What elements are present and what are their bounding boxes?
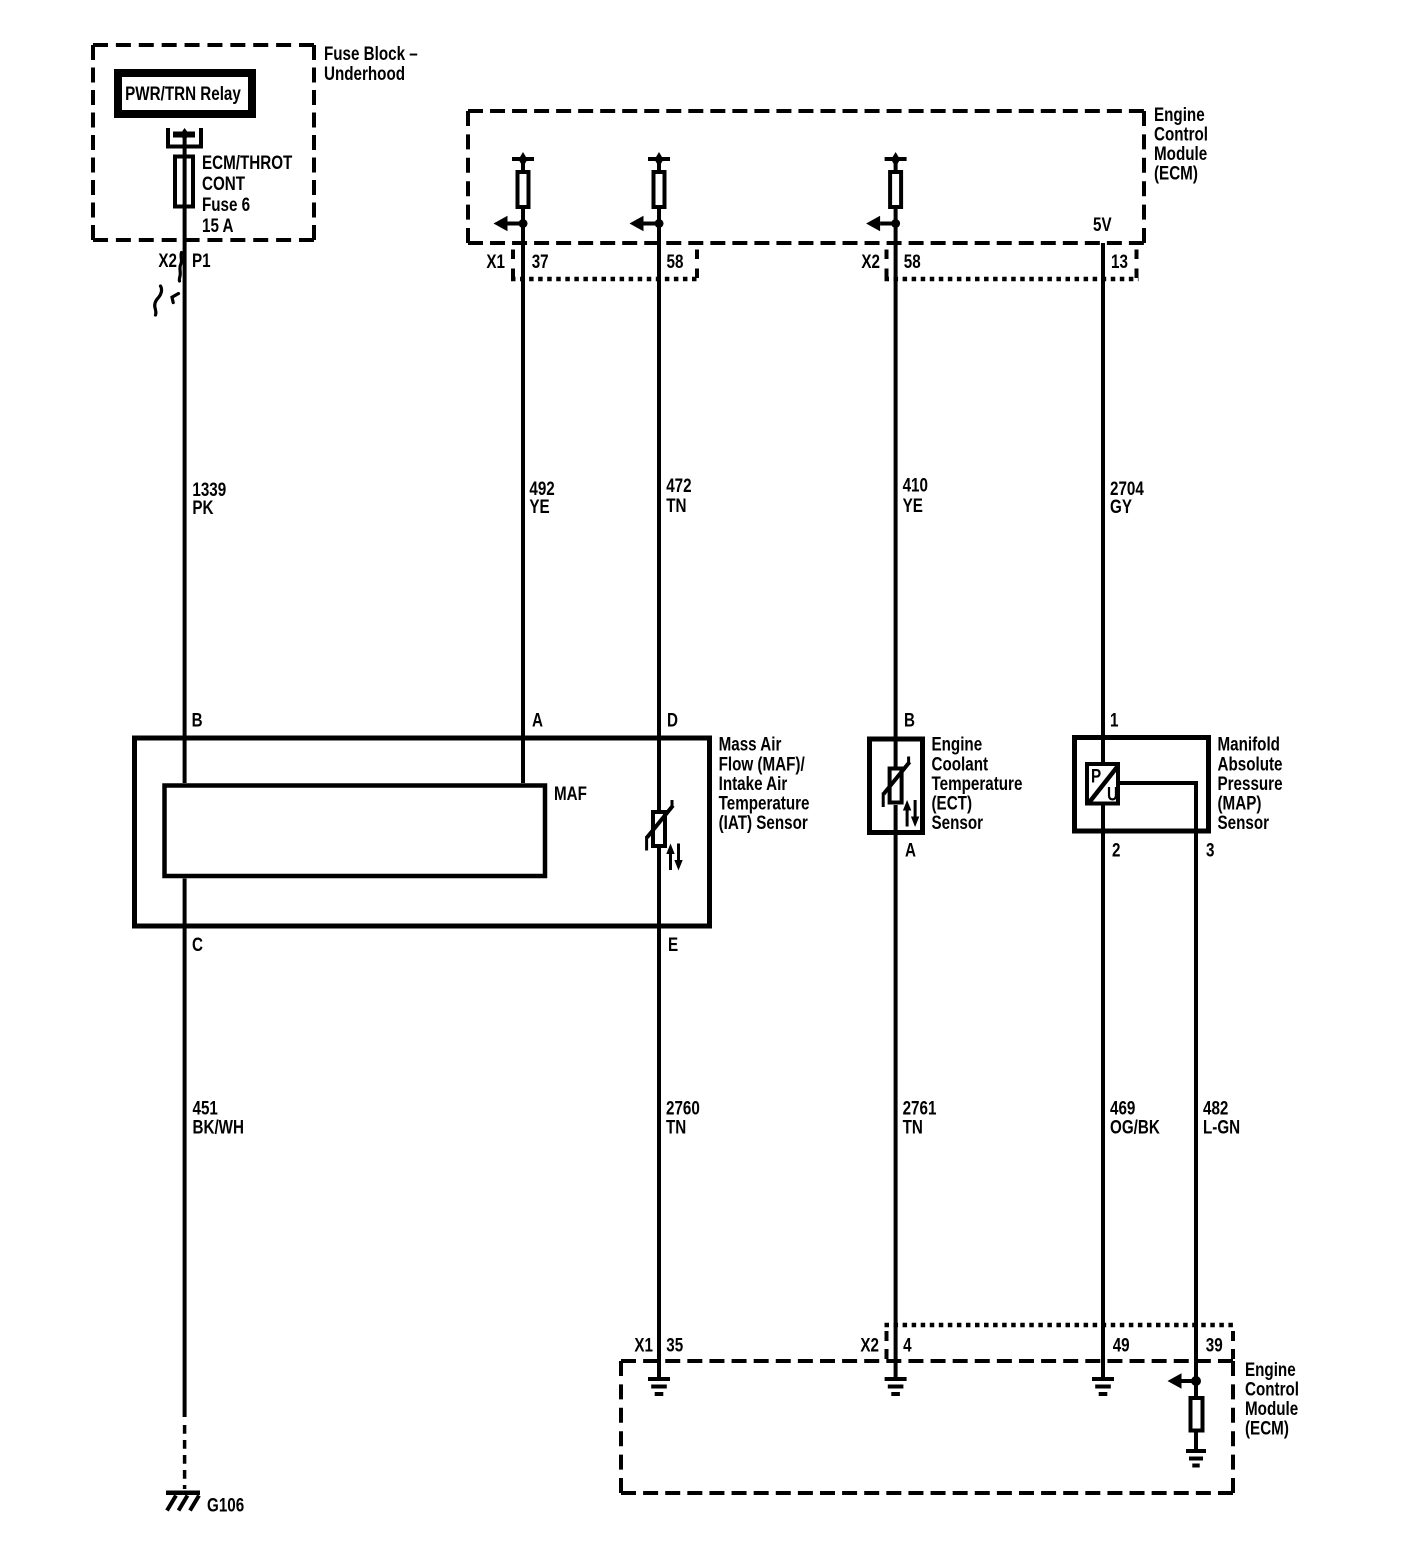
connector X1 (37,58) dotted box (511, 250, 515, 279)
svg-text:X1: X1 (486, 250, 505, 272)
junction dot pin 39 (1191, 1376, 1201, 1386)
MAF inner block (165, 786, 546, 877)
ground at ECM pin 49 (1092, 1379, 1114, 1394)
svg-text:U: U (1107, 783, 1118, 805)
fuse block underhood dashed box (93, 45, 314, 240)
ECM top dashed box (468, 111, 1144, 243)
svg-text:C: C (192, 933, 203, 955)
wire 2704 GY / 469 OG/BK (1101, 243, 1105, 762)
svg-text:TN: TN (666, 494, 686, 516)
relay contact terminal bracket (166, 128, 170, 147)
svg-text:(IAT) Sensor: (IAT) Sensor (719, 811, 808, 833)
svg-text:X2: X2 (861, 250, 880, 272)
arrow at pin 39 (1182, 1379, 1197, 1383)
svg-text:X2: X2 (860, 1334, 879, 1356)
svg-text:472: 472 (666, 474, 692, 496)
wire 482 L-GN from MAP pin 3 (1118, 781, 1198, 785)
svg-text:CONT: CONT (202, 172, 245, 194)
ECT sensor box (870, 739, 923, 833)
svg-text:Fuse 6: Fuse 6 (202, 193, 250, 215)
fuse F6 ECM/THROT CONT 15A (175, 157, 193, 207)
ground at ECM pin 4 (885, 1379, 907, 1394)
svg-text:L-GN: L-GN (1203, 1116, 1240, 1138)
ECM bottom dashed box (621, 1361, 1233, 1493)
bottom connector dotted box (X2 4, 49, 39) (885, 1323, 1234, 1328)
wire dashed segment above G106 (183, 1425, 187, 1489)
svg-text:PWR/TRN Relay: PWR/TRN Relay (125, 82, 241, 104)
svg-text:B: B (192, 709, 203, 731)
svg-text:Sensor: Sensor (932, 811, 984, 833)
svg-text:ECM/THROT: ECM/THROT (202, 151, 293, 173)
wire 451 BK/WH from MAF pin C down (183, 879, 187, 1418)
wire 492 YE (521, 157, 525, 172)
svg-text:39: 39 (1206, 1334, 1223, 1356)
relay PWR/TRN box (118, 73, 252, 114)
svg-text:37: 37 (532, 250, 549, 272)
MAP sensor box (1075, 738, 1209, 832)
ECT thermistor (883, 757, 919, 828)
svg-text:5V: 5V (1093, 213, 1112, 235)
ECM pull-down resistor at pin 39 (1191, 1398, 1203, 1431)
svg-text:Sensor: Sensor (1218, 811, 1270, 833)
svg-text:TN: TN (666, 1116, 686, 1138)
svg-text:4: 4 (903, 1334, 912, 1356)
svg-text:G106: G106 (207, 1494, 244, 1516)
svg-text:MAF: MAF (554, 782, 587, 804)
svg-text:2: 2 (1112, 839, 1121, 861)
svg-text:P: P (1091, 765, 1101, 787)
svg-text:X1: X1 (634, 1334, 653, 1356)
svg-text:58: 58 (667, 250, 684, 272)
svg-text:58: 58 (904, 250, 921, 272)
svg-text:D: D (667, 709, 678, 731)
svg-text:Underhood: Underhood (324, 62, 405, 84)
connector X2 (58,13) dotted box (885, 250, 889, 279)
MAF/IAT sensor outer box (135, 738, 710, 926)
svg-text:PK: PK (192, 496, 213, 518)
svg-text:3: 3 (1206, 839, 1215, 861)
chassis ground G106 (166, 1493, 200, 1511)
ground below resistor 39 (1186, 1451, 1206, 1466)
svg-text:GY: GY (1110, 495, 1132, 517)
svg-text:(ECM): (ECM) (1245, 1417, 1289, 1439)
svg-text:15 A: 15 A (202, 214, 234, 236)
svg-text:A: A (532, 709, 543, 731)
svg-text:49: 49 (1113, 1334, 1130, 1356)
svg-text:A: A (905, 839, 916, 861)
svg-text:YE: YE (903, 494, 923, 516)
svg-text:OG/BK: OG/BK (1110, 1116, 1160, 1138)
ECM supply symbol at 492 YE (494, 152, 535, 231)
svg-text:35: 35 (666, 1334, 683, 1356)
MAP P/U transducer square (1087, 764, 1118, 804)
svg-text:E: E (668, 933, 678, 955)
IAT thermistor (647, 800, 683, 871)
ECM supply symbol at 410 YE (866, 152, 907, 231)
svg-text:YE: YE (529, 495, 549, 517)
svg-text:P1: P1 (192, 249, 211, 271)
svg-text:B: B (904, 709, 915, 731)
svg-text:TN: TN (903, 1116, 923, 1138)
svg-text:13: 13 (1111, 250, 1128, 272)
svg-text:(ECM): (ECM) (1154, 162, 1198, 184)
svg-text:BK/WH: BK/WH (193, 1116, 244, 1138)
svg-text:X2: X2 (158, 249, 177, 271)
wire 410 YE / 2761 TN (894, 157, 898, 172)
wire 472 TN / 2760 TN (657, 157, 661, 172)
svg-text:1: 1 (1110, 709, 1119, 731)
wire 1339 PK from fuse to MAF pin B (183, 134, 187, 783)
ECM supply symbol at 472 TN (630, 152, 671, 231)
ground at ECM pin 35 (648, 1379, 670, 1394)
svg-text:Fuse Block –: Fuse Block – (324, 42, 418, 64)
splice squiggle below X2/P1 (155, 253, 182, 316)
svg-text:410: 410 (903, 474, 928, 496)
